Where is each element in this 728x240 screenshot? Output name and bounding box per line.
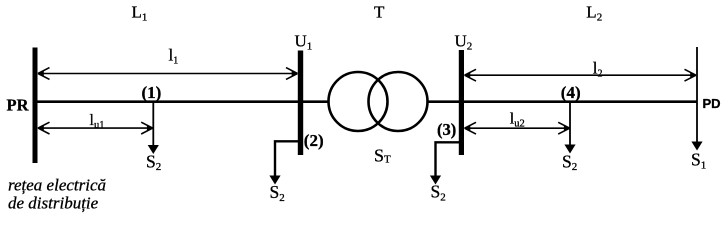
svg-text:PD: PD bbox=[703, 96, 721, 111]
busbar PR (source bar) bbox=[33, 48, 38, 164]
dimension l1 arrow PR to U1 bbox=[38, 68, 298, 80]
tap wire at U1 (node 2) bbox=[275, 141, 299, 177]
wire main feeder line PR to PD bbox=[33, 100, 697, 103]
svg-text:rețea electrică: rețea electrică bbox=[8, 176, 106, 195]
svg-text:(1): (1) bbox=[142, 83, 162, 102]
busbar U2 bbox=[459, 50, 464, 155]
load arrow at node 4 bbox=[569, 103, 571, 146]
transformer T secondary winding circle bbox=[369, 72, 428, 131]
svg-text:de distribuție: de distribuție bbox=[8, 194, 99, 213]
svg-text:T: T bbox=[374, 3, 385, 22]
tap wire at U2 (node 3) bbox=[436, 142, 460, 177]
dimension lu2 arrow U2 to node 4 bbox=[465, 122, 570, 134]
svg-text:PR: PR bbox=[7, 96, 30, 115]
dimension l2 arrow U2 to PD bbox=[465, 69, 697, 81]
svg-text:(2): (2) bbox=[304, 131, 324, 150]
busbar U1 bbox=[298, 51, 303, 156]
dimension lu1 arrow PR to node 1 bbox=[38, 122, 153, 134]
svg-text:(4): (4) bbox=[561, 83, 581, 102]
svg-text:(3): (3) bbox=[437, 120, 456, 139]
transformer T winding circles background bbox=[329, 72, 388, 131]
transformer T primary winding circle bbox=[329, 72, 388, 131]
load arrow at node 1 bbox=[152, 103, 154, 146]
consumer line PD bbox=[696, 47, 698, 143]
